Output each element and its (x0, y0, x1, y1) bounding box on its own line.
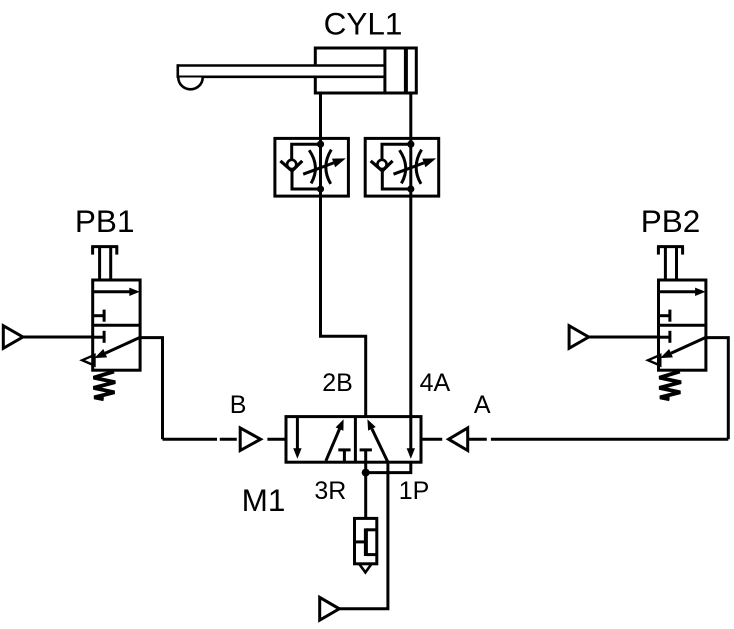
push button valve PB1 (3, 247, 162, 440)
wire PB2 output to pilot A (491, 438, 728, 441)
svg-text:CYL1: CYL1 (324, 6, 403, 42)
PB1 top position: flow passage (93, 290, 131, 293)
wire cylinder right port to valve M1 via flow control V2 (409, 93, 412, 417)
valve M1 body (286, 417, 421, 463)
M1 left position: blocked port T (338, 448, 350, 451)
wire M1 port 1P to pressure source (339, 462, 388, 609)
svg-text:PB1: PB1 (75, 203, 135, 239)
PB1 button actuator (91, 247, 118, 280)
PB1 valve body (93, 280, 140, 370)
cylinder CYL1 piston (383, 48, 386, 93)
M1 left position: down passage (296, 417, 299, 450)
flow control valve V1 (275, 138, 349, 196)
wire junction to silencer (364, 473, 367, 519)
wire supply to PB1 input (23, 336, 93, 339)
wire pilot A to M1 (423, 438, 443, 441)
M1 right position: diagonal passage 1P to 2B (372, 429, 388, 462)
pilot arrow B (240, 428, 260, 451)
cylinder CYL1 body (315, 48, 416, 93)
svg-text:PB2: PB2 (641, 203, 701, 239)
wire PB1 output (140, 338, 162, 440)
PB1 exhaust port triangle (82, 355, 94, 366)
wire cylinder left port to valve M1 via flow control V1 (321, 93, 366, 417)
pressure source (320, 597, 340, 620)
M1 right position: blocked port T (360, 448, 372, 451)
M1 right position: down passage 4A (409, 417, 412, 450)
cylinder CYL1 rod end roller (178, 78, 202, 90)
node junction below M1 (362, 469, 370, 477)
pilot arrow A (449, 428, 468, 451)
flow control V1 arrow head (332, 158, 346, 167)
PB1 bottom position: blocked port T (93, 336, 104, 339)
svg-text:2B: 2B (322, 369, 353, 397)
wire M1 right bottom port to junction (366, 462, 411, 472)
PB1 top position: blocked port T (93, 314, 104, 317)
silencer labyrinth (366, 528, 377, 531)
svg-text:1P: 1P (399, 477, 430, 505)
svg-text:A: A (474, 391, 491, 419)
wire pilot B to M1 (267, 438, 286, 441)
wire PB1 output to pilot B (163, 438, 218, 441)
svg-text:M1: M1 (242, 482, 286, 518)
PB1 return spring (94, 372, 116, 400)
silencer outlet chevron (360, 565, 372, 573)
svg-text:3R: 3R (314, 477, 346, 505)
flow control valve V2 (365, 138, 439, 196)
wire M1 port 3R stub to junction (364, 462, 367, 472)
cylinder CYL1 piston rod (178, 64, 384, 77)
svg-text:4A: 4A (420, 369, 451, 397)
push button valve PB2 (569, 247, 728, 440)
M1 left position: diagonal passage (326, 429, 340, 461)
PB1 air supply source (3, 326, 23, 349)
silencer body (355, 518, 377, 563)
flow control V1 junction dots (317, 141, 324, 148)
PB1 bottom position: exhaust diagonal passage (105, 337, 140, 353)
svg-text:B: B (230, 391, 247, 419)
